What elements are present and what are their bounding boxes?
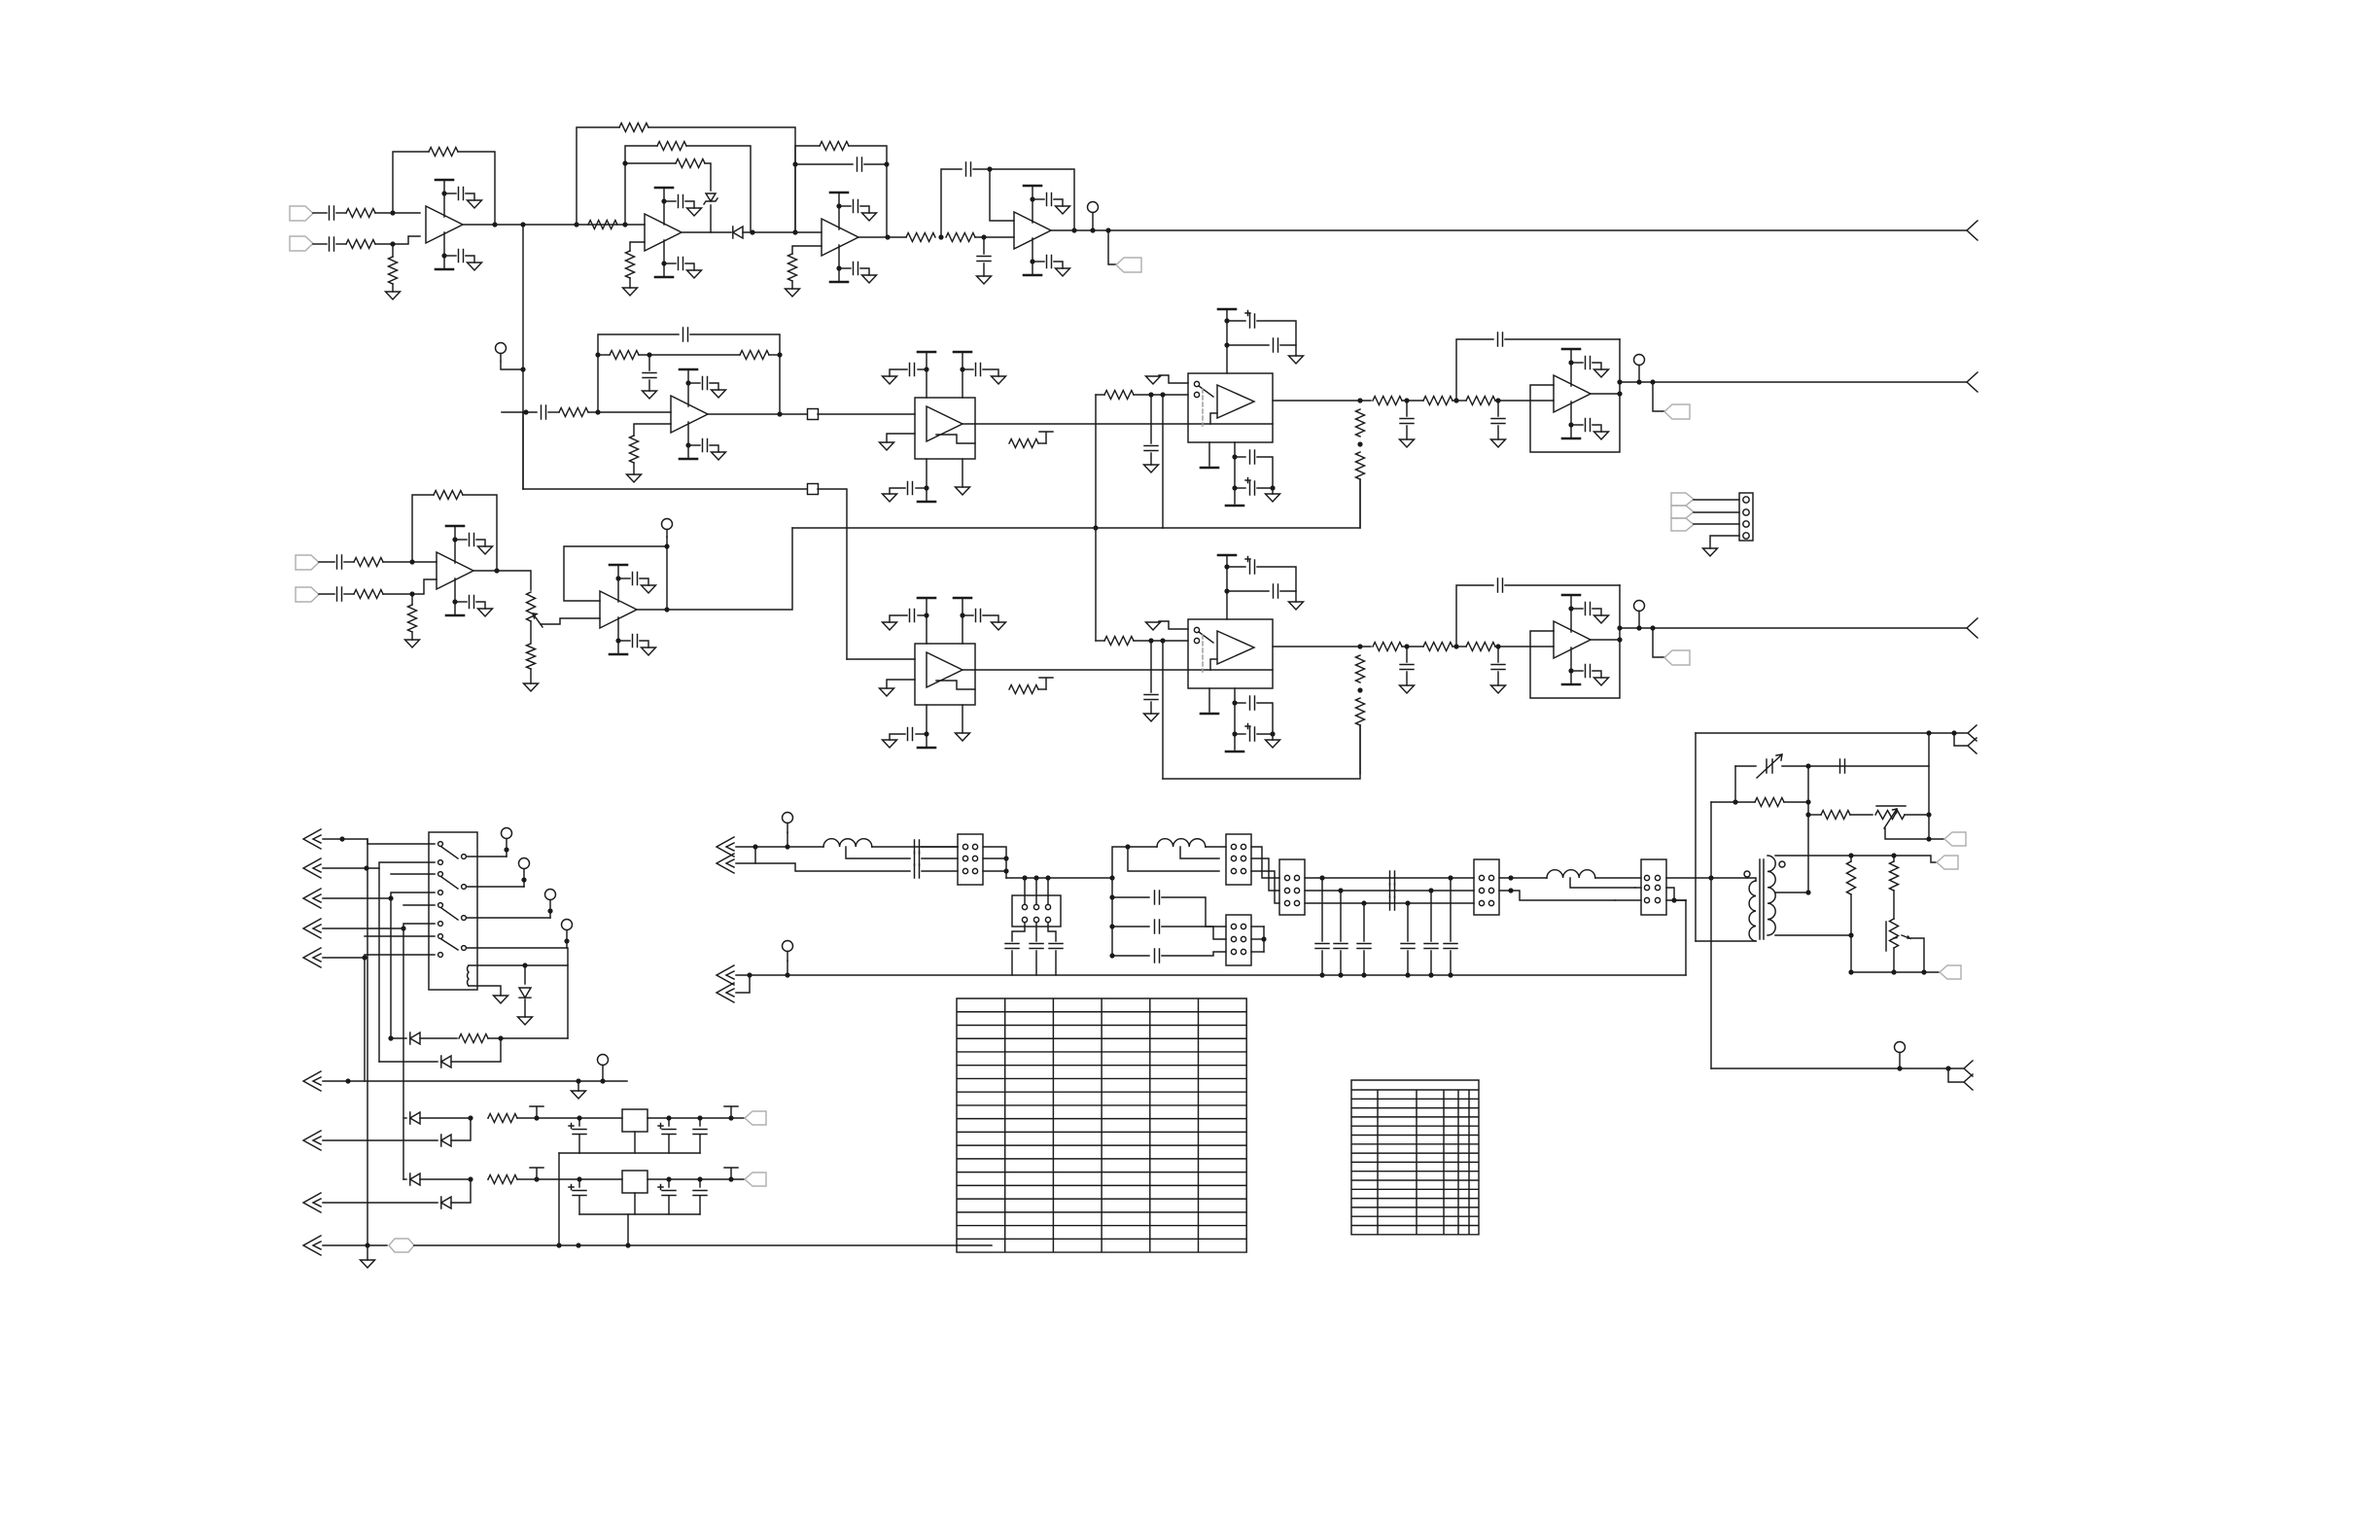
ground U5 V+ — [712, 390, 726, 398]
wire row3 C40 gnd — [1406, 672, 1408, 685]
junction U3 V- — [836, 265, 841, 270]
node H1b — [1003, 856, 1008, 860]
junction U5 V- — [685, 442, 690, 447]
terminal X6 — [598, 1055, 609, 1082]
resistor row2 ladder1 — [1356, 409, 1365, 437]
ground U2 +in — [623, 288, 638, 296]
node H6L — [1261, 936, 1266, 941]
junction U10 V- — [452, 599, 457, 604]
op-amp row2 output — [1554, 375, 1591, 412]
capacitor U6 bypass b — [976, 364, 981, 376]
wire R71 row — [1808, 814, 1821, 816]
wire coil top — [469, 964, 568, 966]
wire SP2- join — [736, 975, 750, 993]
wire VREG1 jack — [323, 1139, 437, 1141]
wire U1 V+ cap gnd — [466, 193, 474, 200]
node X9 — [365, 1242, 369, 1247]
wire Cb1 gnd — [1321, 951, 1323, 975]
wire row2 out — [1591, 393, 1620, 395]
relay contact K1 throw3a — [438, 903, 443, 908]
wire U6 pin V- b — [962, 459, 963, 487]
wire R72 wires — [1850, 856, 1852, 861]
node E1 — [595, 409, 600, 414]
ground C14 — [1144, 714, 1159, 721]
terminal SP1 — [783, 813, 793, 833]
ground C13 — [1144, 465, 1159, 472]
wire L3 tap — [1570, 878, 1635, 888]
wire row3 C42 gnd — [1497, 672, 1499, 685]
capacitor Cb2 — [1334, 944, 1347, 949]
wire bus V3 — [390, 898, 392, 1038]
wire fb row3 bottom — [1163, 725, 1360, 779]
junction U9 d3 — [1270, 731, 1275, 736]
diode D2 — [733, 227, 743, 238]
node C1 — [792, 229, 797, 234]
node sec1 — [1848, 853, 1853, 857]
resistor R71 — [1821, 811, 1850, 820]
supply bar U6 b — [954, 351, 971, 354]
node U11 fb — [664, 543, 669, 548]
wire U6 cap b — [962, 368, 973, 370]
wire VREG1 rail join — [559, 1152, 579, 1154]
connector tag FB — [1944, 832, 1966, 846]
relay arm K1 p4 — [441, 939, 458, 950]
transformer T1 secondary — [1767, 856, 1775, 935]
wire VREG2 co2 down — [699, 1179, 701, 1187]
wire row3 fb up — [1456, 585, 1493, 647]
op-amp row3 output — [1554, 621, 1591, 658]
node fb U3 — [884, 161, 889, 166]
connector H2 pins — [1022, 904, 1027, 909]
junction U8 pin b — [960, 612, 964, 617]
wire tag P1b — [1694, 511, 1739, 513]
wire relay term 1 — [506, 839, 507, 857]
switch dashed actuator U7 — [1202, 389, 1204, 426]
node X6c — [600, 1078, 605, 1083]
capacitor C14 — [1144, 695, 1158, 700]
capacitor C30c — [915, 864, 920, 878]
node X6b — [576, 1078, 580, 1083]
wire relay in d — [365, 935, 435, 937]
junction U7 d2 — [1232, 485, 1237, 490]
wire VREG2 r2 — [487, 1178, 489, 1180]
wire VREG2 to reg — [517, 1178, 622, 1180]
connector X1 — [303, 829, 321, 849]
wire H3 out a — [1251, 847, 1279, 878]
resistor R7 fb outer — [619, 123, 648, 132]
resistor row2 R40 — [1373, 397, 1402, 405]
ground X6 — [572, 1091, 586, 1099]
wire U5 fb res row — [598, 354, 610, 356]
ground U8 a — [883, 622, 897, 630]
wire U5 V- cap gnd — [710, 445, 718, 452]
wire branch1 — [1112, 896, 1149, 898]
supply bar row3out V+ — [1562, 594, 1580, 597]
supply bar U7 c — [1201, 467, 1218, 470]
wire U8 pin V+ a — [926, 598, 927, 644]
connector H2 shunt — [1012, 895, 1061, 927]
node row2 in — [523, 409, 528, 414]
wire row3 box out — [1273, 646, 1371, 647]
relay contact K1 throw1a — [438, 842, 443, 847]
wire VREG1 cin rail — [578, 1135, 580, 1153]
resistor row3 R41 — [1423, 643, 1452, 651]
wire relay term 2 — [523, 869, 525, 887]
wire U7 capd2 — [1234, 457, 1236, 504]
table revision — [1351, 1080, 1479, 1235]
wire terminal to bus — [501, 362, 523, 369]
ground C4 — [977, 276, 992, 284]
wire relay term 3 — [549, 900, 551, 918]
wire R31 in — [1096, 640, 1104, 642]
resistor R20 — [559, 408, 588, 417]
wire U10 V- cap gnd — [476, 602, 485, 609]
terminal SP2 — [783, 941, 793, 962]
switch contact U9 a — [1194, 627, 1199, 632]
wire H5 out a — [1499, 877, 1547, 879]
supply bar U8 b — [954, 597, 971, 600]
connector tag P1b — [1671, 506, 1694, 518]
capacitor U4 V+ bypass — [1047, 193, 1052, 206]
wire R3 to ground — [392, 284, 394, 292]
relay contact K1 throw2a — [438, 872, 443, 877]
supply bar U8 a — [918, 597, 935, 600]
wire U2 V- cap gnd — [685, 263, 694, 270]
resistor R22 fb — [740, 351, 769, 360]
wire U6 pin V- a — [926, 459, 927, 502]
relay pole K1 p1 — [462, 855, 467, 859]
wire bank4 down — [1407, 903, 1409, 941]
resistor U8 sense — [1009, 685, 1038, 694]
wire H6 in b — [1635, 887, 1641, 889]
wire row3out V+ cap — [1571, 608, 1583, 610]
resistor row2 R42 — [1466, 397, 1495, 405]
node X1 — [339, 836, 344, 841]
node V1b — [1508, 888, 1513, 892]
wire Cb4 gnd — [1407, 951, 1409, 975]
wire bus y543 — [792, 527, 1163, 529]
wire H2 b down — [1035, 923, 1037, 941]
wire node A2 down — [392, 244, 394, 257]
ground U7 top — [1289, 356, 1304, 364]
connector tag P1a — [1671, 493, 1694, 506]
resistor R53 fb U10 — [434, 491, 463, 500]
junction U3 V+ — [836, 203, 841, 208]
wire U8 out — [962, 669, 1273, 671]
wire R73 wires — [1893, 856, 1895, 861]
node bank6 — [1448, 875, 1452, 880]
capacitor U11 V- bypass — [633, 635, 638, 647]
connector tag VREG1 — [745, 1111, 766, 1125]
node T3 — [1109, 924, 1114, 928]
wire U9 gnd stub — [1159, 621, 1188, 629]
op-amp U1 — [426, 206, 463, 243]
ground U6 a — [883, 376, 897, 384]
ground row3out V- — [1594, 678, 1609, 685]
capacitor C12 — [643, 373, 656, 378]
resistor R72 — [1847, 861, 1856, 894]
wire x1860 — [1807, 766, 1809, 892]
wire U9 capd — [1235, 702, 1245, 704]
capacitor U10 V+ bypass — [470, 534, 474, 546]
junction U9 vtop — [1224, 564, 1229, 569]
relay contact K1 throw1b — [438, 860, 443, 865]
wire J1 to C1 — [313, 212, 327, 214]
ground U6 d — [956, 487, 970, 495]
ground U1 V+ — [468, 200, 482, 208]
node bank2 — [1338, 888, 1343, 892]
wire line3 — [755, 863, 910, 871]
wire res row — [1711, 801, 1755, 803]
wire P1 pin4 gnd — [1710, 536, 1739, 548]
terminal direct tap — [496, 343, 507, 362]
diode VREG1 b — [441, 1135, 451, 1146]
wire row3 G3 to U — [1495, 646, 1554, 647]
wire U9 gnd d — [1272, 734, 1274, 740]
U9 inner stub — [1210, 659, 1217, 670]
wire row3 out — [1591, 639, 1620, 641]
node E1 up — [595, 352, 600, 357]
wire U7 capd right — [1257, 457, 1273, 488]
node bankg5 — [1428, 972, 1433, 977]
wire U9 capd2 wires — [1235, 733, 1245, 735]
node T1 — [1109, 875, 1114, 880]
junction row3out V- — [1568, 668, 1573, 673]
wire U8 in — [847, 658, 915, 660]
capacitor U9 d2 electrolytic — [1245, 724, 1255, 742]
capacitor Cb3 — [1357, 944, 1371, 949]
wire C30a out — [922, 846, 958, 848]
wire VREG1 cin down — [578, 1118, 580, 1126]
resistor R3 to ground — [389, 257, 398, 284]
wire U7 gnd stub — [1159, 375, 1188, 383]
supply bar row3out V- — [1562, 683, 1580, 686]
wire row3 G1 — [1402, 646, 1423, 647]
resistor R6 U2 +in — [626, 251, 635, 278]
wire R72 down — [1850, 894, 1852, 972]
supply bar U6 c — [918, 501, 935, 504]
wire D10 gnd — [524, 999, 526, 1017]
connector J2 input L- — [290, 236, 313, 251]
wire RV1 right — [1905, 814, 1929, 816]
net stub VREG1 out — [724, 1106, 738, 1118]
relay contact K1 throw2b — [438, 891, 443, 895]
node C0 — [750, 229, 754, 234]
wire U3 V+ cap gnd — [860, 206, 869, 213]
wire bus V5 — [364, 958, 366, 1081]
wire row2 in left — [522, 412, 524, 489]
op-amp inside U9 — [1217, 631, 1254, 664]
junction U9 d1 — [1232, 700, 1237, 705]
wire U6 pin V+ b — [962, 352, 963, 398]
wire rail1 down — [558, 1153, 560, 1245]
resistor R10 fb U3 — [820, 142, 849, 151]
node row3 fb corner — [1617, 625, 1622, 630]
wire row2 -in loop — [1530, 339, 1620, 452]
net stub U6 — [1039, 432, 1053, 443]
transformer T1 primary dot — [1744, 871, 1750, 877]
transformer T1 primary — [1749, 881, 1756, 941]
wire L1 out — [872, 846, 958, 848]
wire L2 tap — [1180, 847, 1219, 858]
node relay out 1 — [504, 847, 508, 852]
wire coil diode — [524, 965, 526, 984]
capacitor U5 V+ bypass — [703, 377, 708, 390]
power rail U3 V- — [838, 245, 840, 282]
wire sec top — [1775, 856, 1937, 862]
relay arm K1 p1 — [441, 847, 458, 858]
U8 minus bar — [936, 681, 975, 689]
capacitor C50 — [1840, 759, 1845, 773]
wire varcap row — [1735, 765, 1756, 767]
node row3 G1 — [1404, 644, 1409, 648]
resistor R60 — [459, 1034, 488, 1043]
wire primary bottom — [1696, 940, 1756, 942]
wire U3 V- cap gnd — [860, 268, 869, 275]
node bank1 — [1319, 875, 1324, 880]
power rail U5 V+ — [687, 369, 689, 406]
wire U6 out — [962, 423, 1273, 425]
node S2 — [1033, 875, 1038, 880]
wire U9 capd2 right — [1257, 733, 1273, 735]
ground U2 V+ — [687, 208, 702, 216]
supply bar U7 d — [1226, 505, 1243, 507]
wire X1 wire — [323, 839, 435, 844]
junction U10 V+ — [452, 537, 457, 542]
wire U2 V- cap — [664, 262, 676, 264]
node fb U4 — [987, 166, 992, 171]
wire sec mid — [1775, 892, 1808, 893]
node L2 tap2 — [1125, 844, 1130, 849]
connector tag load — [1940, 965, 1961, 979]
wire row3 tag — [1653, 628, 1664, 657]
wire term SP2 stem — [787, 961, 788, 975]
wire L3 out — [1595, 877, 1641, 879]
wire VREG1 da — [420, 1117, 471, 1119]
node vc3 — [1805, 799, 1810, 804]
capacitor row3 C41 fb — [1498, 578, 1503, 592]
wire C11 right — [690, 334, 780, 415]
wire H2 a down — [1012, 923, 1025, 941]
resistor R52 — [408, 605, 417, 632]
wire U7 pin d — [1234, 442, 1236, 457]
wire row3 G3 down — [1497, 647, 1499, 662]
node row3 G0 — [1357, 644, 1362, 648]
node row3 tag — [1650, 625, 1655, 630]
wire H6 out b — [1666, 888, 1686, 900]
ground R3 — [386, 292, 401, 299]
zener D1 — [704, 193, 717, 204]
wire C4 gnd — [983, 263, 985, 276]
wire X6 tail — [603, 1080, 627, 1082]
junction row3 ladder — [1357, 687, 1362, 692]
node vc5 — [1926, 812, 1931, 817]
wire X2 wire — [323, 862, 435, 868]
ground U6 c — [883, 494, 897, 502]
connector SP2+ — [717, 965, 734, 985]
ground U9 d — [1266, 740, 1280, 748]
junction U6 pin b — [960, 367, 964, 371]
wire L2 in riser — [1112, 847, 1157, 878]
ground U9 top — [1289, 602, 1304, 610]
node C2 — [792, 161, 797, 166]
junction U8 pin a — [924, 612, 928, 617]
capacitor C20 — [337, 555, 342, 569]
wire to tag vc — [1929, 838, 1944, 840]
wire U7 gnd d — [1272, 488, 1274, 494]
wire R60 right — [488, 1037, 568, 1039]
power rail row2out V+ — [1570, 349, 1572, 386]
power rail U2 V- — [663, 240, 665, 277]
wire U8 cap a gnd — [890, 615, 907, 622]
wire row3 -in loop — [1530, 585, 1620, 698]
ground U3 +in — [786, 289, 800, 297]
node A1 — [390, 210, 395, 215]
wire U8 pin V- a — [926, 705, 927, 748]
wire Cb3 gnd — [1363, 951, 1365, 975]
capacitor C32 — [1155, 920, 1160, 933]
node VREG2 co2 — [697, 1176, 702, 1181]
node U11 out — [664, 607, 669, 612]
wire branch3 out — [1162, 952, 1226, 956]
node bankg1 — [1319, 972, 1324, 977]
wire node D2s down — [983, 237, 985, 254]
wire S3 down — [1047, 878, 1049, 904]
wire bankline b — [1305, 890, 1474, 892]
node bank3 — [1361, 900, 1366, 905]
wire U2 V+ cap — [664, 200, 676, 202]
wire VREG2 co1 rail — [668, 1196, 670, 1214]
node relay out 4 — [564, 938, 569, 943]
node row3 out — [1617, 637, 1622, 642]
node VREG1 cin — [577, 1115, 581, 1120]
ground R54 — [524, 683, 539, 691]
connector P2 2-pin — [1954, 725, 1977, 753]
resistor R8 fb — [657, 142, 686, 151]
U6 minus bar — [936, 435, 975, 443]
capacitor VREG1 in electrolytic — [569, 1124, 586, 1135]
diode VREG2 b — [441, 1197, 451, 1208]
wire branch3 — [1112, 955, 1149, 957]
capacitor U7 d2 electrolytic — [1245, 478, 1255, 496]
node F1 — [1148, 392, 1153, 397]
wire branch2 — [1112, 926, 1149, 927]
node tag row1 — [1105, 227, 1110, 232]
power rail U4 V- — [1032, 238, 1033, 275]
resistor row2 R41 — [1423, 397, 1452, 405]
wire U8 cap c gnd — [890, 734, 905, 740]
junction U4 V+ — [1030, 196, 1034, 201]
capacitor C4 shunt — [977, 257, 991, 262]
supply bar row2out V+ — [1562, 348, 1580, 351]
capacitor row3out V- bypass — [1586, 665, 1591, 678]
wire C13 gnd — [1150, 453, 1152, 465]
ground U3 V- — [862, 275, 877, 283]
wire VREG1 out — [647, 1117, 745, 1119]
wire D1 down — [710, 205, 712, 232]
power rail row2out V- — [1570, 402, 1572, 438]
supply bar U1 V+ — [436, 179, 453, 182]
node K2 — [409, 591, 414, 596]
ground X9 — [361, 1260, 375, 1268]
node S3 — [1045, 875, 1050, 880]
resistor R23 U5 +in — [630, 436, 639, 463]
junction U5 V+ — [685, 380, 690, 385]
wire H6L out b — [1251, 938, 1264, 940]
node SP1 — [752, 844, 757, 849]
capacitor C35c — [1390, 896, 1395, 910]
ground U9 stub — [1146, 622, 1161, 630]
